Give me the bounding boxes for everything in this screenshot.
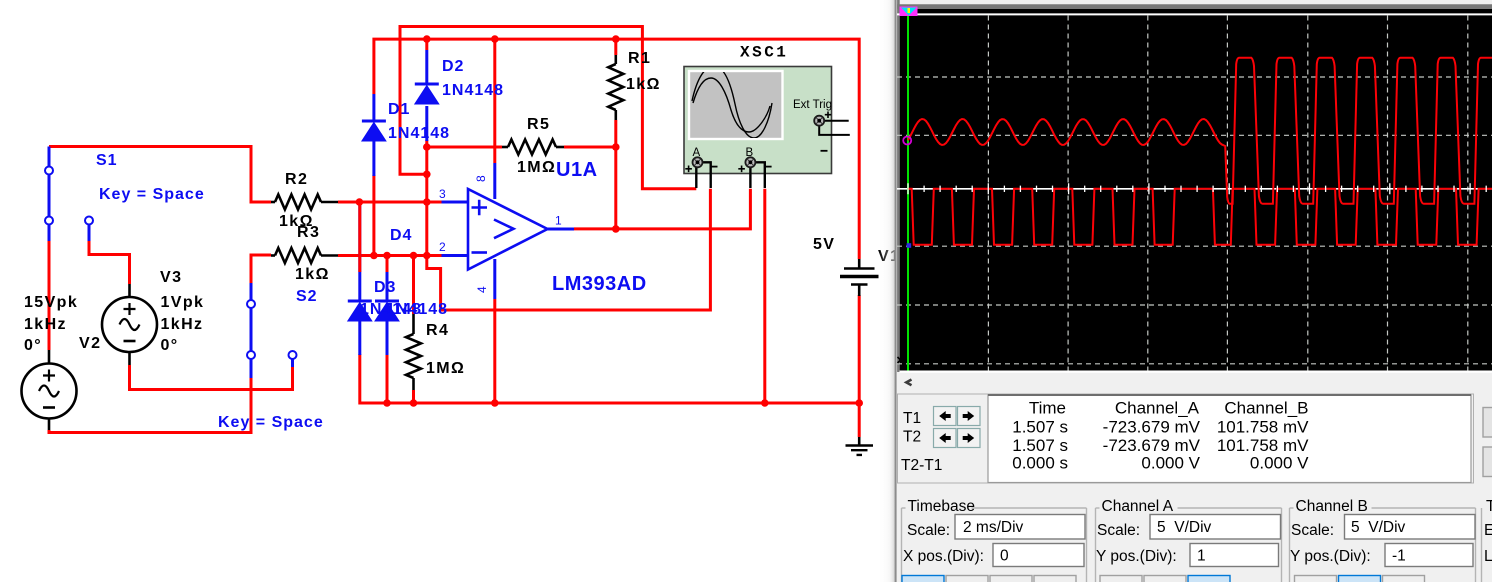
svg-text:R3: R3 bbox=[297, 224, 320, 241]
svg-text:T1: T1 bbox=[903, 410, 921, 427]
resistor R5 1MOhm bbox=[502, 146, 508, 149]
svg-text:-723.679 mV: -723.679 mV bbox=[1103, 418, 1201, 437]
svg-text:8: 8 bbox=[474, 175, 488, 182]
svg-text:Scale:: Scale: bbox=[1097, 522, 1140, 539]
scope left edge marker (green) bbox=[907, 14, 909, 370]
timebase group bbox=[902, 508, 1087, 582]
wire: D2 column through R5 node, + wire, to - wire bbox=[425, 39, 428, 255]
wire: S1 top terminal to R2 left bbox=[49, 147, 271, 203]
wire: +5V rail (wire B) from D1 top across to battery V1 bbox=[374, 39, 859, 259]
svg-text:D2: D2 bbox=[442, 58, 464, 75]
channel A trace bbox=[908, 58, 1492, 204]
junction elbow on - wire bbox=[423, 252, 431, 260]
svg-text:S2: S2 bbox=[296, 288, 318, 305]
svg-text:D3: D3 bbox=[374, 279, 396, 296]
svg-text:T2-T1: T2-T1 bbox=[901, 457, 942, 474]
wire: R2 right to op-amp noninverting input (+ wire) bbox=[338, 201, 442, 204]
wire: R5 left lead to D2 node bbox=[427, 146, 502, 149]
svg-text:1N4148: 1N4148 bbox=[388, 125, 450, 142]
svg-text:E: E bbox=[1484, 522, 1492, 539]
junction D2 column on + wire bbox=[423, 198, 431, 206]
junction wire A on D2 column bbox=[423, 171, 431, 179]
channel A left marker bbox=[903, 137, 911, 145]
junction R1 on +5V rail bbox=[612, 35, 620, 43]
wire: D3 anode to ground rail bbox=[386, 354, 389, 403]
wire: S1 pole down to V2 positive terminal bbox=[48, 241, 51, 350]
junction pin8 on +5V rail bbox=[491, 35, 499, 43]
svg-text:-723.679 mV: -723.679 mV bbox=[1103, 436, 1201, 455]
svg-text:R2: R2 bbox=[285, 171, 308, 188]
resistor R1 1kOhm bbox=[614, 55, 617, 64]
svg-text:L: L bbox=[1484, 548, 1492, 565]
svg-text:U1A: U1A bbox=[556, 159, 598, 181]
svg-text:1.507 s: 1.507 s bbox=[1012, 418, 1068, 437]
channel B trace bbox=[908, 189, 1492, 245]
scope bottom panel bbox=[898, 373, 1492, 582]
svg-text:Scale:: Scale: bbox=[1291, 522, 1334, 539]
svg-text:XSC1: XSC1 bbox=[740, 44, 788, 62]
svg-text:2: 2 bbox=[439, 240, 446, 254]
svg-text:101.758 mV: 101.758 mV bbox=[1217, 436, 1309, 455]
svg-text:1.507 s: 1.507 s bbox=[1012, 436, 1068, 455]
wire: D1 bottom to inverting input wire bbox=[372, 175, 375, 256]
trigger group (cut off) bbox=[1481, 508, 1483, 582]
junction R4 on - wire bbox=[410, 252, 418, 260]
svg-text:Channel B: Channel B bbox=[1296, 498, 1368, 515]
svg-text:0°: 0° bbox=[161, 337, 179, 354]
svg-text:0.000 V: 0.000 V bbox=[1250, 454, 1309, 473]
channel A group bbox=[1096, 508, 1282, 582]
wire: R3 right to op-amp inverting input (- wire) bbox=[338, 254, 442, 257]
wire: V2 negative terminal bottom run up to S2 pole bbox=[49, 378, 251, 433]
diode D4 1N4148 bbox=[358, 202, 361, 356]
junction R4 on ground rail bbox=[410, 399, 418, 407]
svg-text:T2: T2 bbox=[903, 429, 921, 446]
switch S1 bbox=[45, 147, 93, 242]
svg-text:1: 1 bbox=[1197, 548, 1206, 565]
svg-text:-1: -1 bbox=[1392, 548, 1406, 565]
svg-text:D1: D1 bbox=[388, 101, 410, 118]
svg-text:X pos.(Div):: X pos.(Div): bbox=[903, 548, 984, 565]
resistor R4 1MOhm bbox=[412, 314, 415, 334]
svg-text:Key = Space: Key = Space bbox=[218, 414, 324, 431]
svg-text:D4: D4 bbox=[390, 227, 412, 244]
source V3 1Vpk AC bbox=[128, 284, 131, 365]
svg-text:0.000 s: 0.000 s bbox=[1012, 454, 1068, 473]
scope top boundary line bbox=[897, 13, 1492, 15]
wire: R4 column from inverting wire to ground rail bbox=[412, 256, 415, 404]
svg-text:0: 0 bbox=[1000, 548, 1009, 565]
battery V1 5V bbox=[840, 259, 879, 296]
resistor R3 1kOhm bbox=[271, 254, 275, 257]
tiny resize chevron bbox=[898, 357, 901, 363]
svg-text:Channel A: Channel A bbox=[1102, 498, 1174, 515]
op-amp U1A LM393AD comparator bbox=[442, 163, 575, 299]
svg-text:S1: S1 bbox=[96, 152, 118, 169]
svg-text:LM393AD: LM393AD bbox=[552, 273, 647, 295]
svg-text:1N4148: 1N4148 bbox=[442, 82, 504, 99]
svg-text:2 ms/Div: 2 ms/Div bbox=[963, 519, 1024, 536]
wire: ground rail along bottom bbox=[360, 354, 859, 403]
svg-text:Channel_A: Channel_A bbox=[1115, 399, 1200, 418]
svg-text:0°: 0° bbox=[24, 337, 42, 354]
svg-text:R5: R5 bbox=[527, 116, 550, 133]
scope time axis bbox=[897, 188, 1492, 190]
ground symbol bbox=[846, 437, 874, 455]
svg-text:Y pos.(Div):: Y pos.(Div): bbox=[1290, 548, 1371, 565]
diode D2 1N4148 bbox=[425, 50, 428, 141]
channel B group bbox=[1290, 508, 1476, 582]
svg-text:5 V/Div: 5 V/Div bbox=[1157, 519, 1212, 536]
svg-text:Timebase: Timebase bbox=[908, 498, 975, 515]
svg-text:Time: Time bbox=[1029, 399, 1066, 418]
trigger position marker bbox=[900, 7, 918, 17]
junction pin4 on ground rail bbox=[491, 399, 499, 407]
junction battery on ground rail bbox=[855, 399, 863, 407]
wire: op-amp pin 4 down to ground rail bbox=[493, 299, 496, 403]
oscilloscope icon XSC1 bbox=[684, 66, 850, 188]
source V2 15Vpk AC bbox=[48, 350, 51, 430]
wire: elbow from inverting node to scope channel A minus bbox=[427, 189, 711, 310]
svg-text:1MΩ: 1MΩ bbox=[426, 360, 465, 377]
resistor R2 1kOhm bbox=[271, 201, 275, 204]
svg-text:1kΩ: 1kΩ bbox=[626, 76, 661, 93]
svg-text:V2: V2 bbox=[79, 335, 101, 352]
svg-text:5V: 5V bbox=[813, 236, 835, 253]
wire: outer loop (wire A) from D2 node to scope channel A plus bbox=[400, 27, 696, 189]
wire: R5 right lead to R1/output column bbox=[564, 146, 616, 149]
svg-text:1kHz: 1kHz bbox=[161, 316, 204, 333]
svg-text:Key = Space: Key = Space bbox=[99, 186, 205, 203]
svg-text:1N4148: 1N4148 bbox=[386, 301, 448, 318]
svg-text:1: 1 bbox=[555, 214, 562, 228]
junction D3 on ground rail bbox=[383, 399, 391, 407]
axis tick marks bbox=[908, 183, 1486, 194]
svg-text:101.758 mV: 101.758 mV bbox=[1217, 418, 1309, 437]
svg-text:1Vpk: 1Vpk bbox=[161, 294, 205, 311]
wire: op-amp pin 8 up to +5V rail bbox=[493, 39, 496, 163]
junction R5 left node bbox=[423, 143, 431, 151]
svg-text:0.000 V: 0.000 V bbox=[1141, 454, 1200, 473]
svg-text:T: T bbox=[1486, 498, 1492, 515]
svg-text:Ext Trig: Ext Trig bbox=[793, 99, 832, 111]
diode D1 1N4148 bbox=[372, 94, 375, 176]
channel B left marker bbox=[907, 243, 912, 248]
svg-text:V3: V3 bbox=[160, 269, 182, 286]
svg-text:R1: R1 bbox=[628, 50, 651, 67]
wire: op-amp output to scope channel B plus bbox=[574, 189, 750, 229]
svg-text:1MΩ: 1MΩ bbox=[517, 159, 556, 176]
wire: V3 negative terminal to S2 right throw bbox=[130, 365, 293, 390]
wire: scope channel B minus down to ground rail bbox=[763, 189, 766, 403]
svg-text:3: 3 bbox=[439, 187, 446, 201]
wire: S1 right throw to V3 positive terminal bbox=[89, 241, 130, 284]
svg-text:4: 4 bbox=[475, 286, 489, 293]
svg-text:Scale:: Scale: bbox=[907, 522, 950, 539]
junction D2 on +5V rail bbox=[423, 35, 431, 43]
junction D4 on + wire bbox=[356, 198, 364, 206]
switch S2 bbox=[247, 283, 297, 378]
svg-text:15Vpk: 15Vpk bbox=[24, 294, 78, 311]
diode D3 1N4148 bbox=[386, 272, 389, 355]
junction D1 on - wire bbox=[370, 252, 378, 260]
junction scope B- on ground rail bbox=[761, 399, 769, 407]
oscilloscope instrument window bbox=[878, 0, 1492, 582]
svg-text:1kΩ: 1kΩ bbox=[295, 266, 330, 283]
wire: R1 column from +5V rail to output node bbox=[614, 39, 617, 229]
svg-text:5 V/Div: 5 V/Div bbox=[1351, 519, 1406, 536]
svg-text:Channel_B: Channel_B bbox=[1224, 399, 1308, 418]
junction output node bbox=[612, 225, 620, 233]
wire: R3 left riser to S2 top terminal bbox=[251, 255, 271, 283]
junction R5 right node bbox=[612, 143, 620, 151]
svg-text:Y pos.(Div):: Y pos.(Div): bbox=[1096, 548, 1177, 565]
wire: battery V1 negative to ground rail and ground symbol bbox=[858, 295, 861, 437]
svg-text:R4: R4 bbox=[426, 322, 449, 339]
junction D3 on - wire bbox=[383, 252, 391, 260]
svg-text:1kHz: 1kHz bbox=[24, 316, 67, 333]
